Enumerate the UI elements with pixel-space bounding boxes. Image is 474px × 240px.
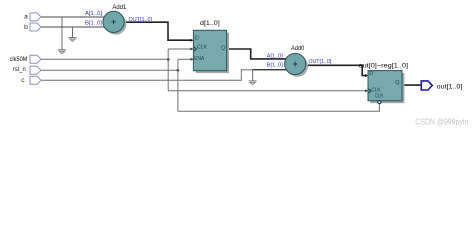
ground GND3 [249, 81, 257, 85]
svg-text:B[1..0]: B[1..0] [85, 21, 102, 27]
wire clk branch to d register CLK [168, 48, 193, 50]
svg-text:D: D [369, 71, 373, 77]
svg-text:clk50M: clk50M [10, 56, 28, 63]
wire rst bottom run to out~reg CLR [178, 104, 380, 112]
svg-text:b: b [24, 24, 28, 31]
svg-text:A[1..0]: A[1..0] [85, 11, 102, 17]
ground GND1 [58, 50, 66, 54]
adder Add0 circle [285, 53, 306, 74]
wire rst_n horizontal [41, 69, 178, 71]
input pin b [30, 23, 41, 31]
svg-text:Q: Q [395, 80, 400, 86]
node junction dot clk [167, 58, 170, 61]
register out[0]~reg[1..0] body [368, 71, 402, 101]
svg-text:A[1..0]: A[1..0] [267, 53, 283, 59]
adder Add0 shadow [287, 56, 308, 77]
adder Add0 plus sign [293, 62, 297, 66]
arrowhead d register CLK pin [190, 48, 193, 51]
adder Add1 circle [103, 11, 124, 32]
wire rst vertical trunk [177, 59, 179, 111]
svg-text:CLR: CLR [375, 93, 383, 99]
svg-text:OUT[1..0]: OUT[1..0] [129, 17, 153, 23]
svg-text:CLK: CLK [197, 44, 207, 50]
svg-text:Add0: Add0 [291, 45, 304, 52]
svg-text:Add1: Add1 [112, 4, 126, 11]
svg-text:out[1..0]: out[1..0] [437, 83, 463, 90]
ground stub from node b bus [72, 27, 74, 37]
svg-text:d[1..0]: d[1..0] [200, 20, 220, 27]
wire Add0 OUT to out~reg D input [301, 65, 367, 75]
ground stub from node c bus [252, 70, 254, 81]
svg-text:ENA: ENA [194, 56, 204, 62]
wire clk bottom run to out~reg CLK [168, 90, 367, 92]
wire clk vertical trunk [167, 49, 169, 91]
svg-text:OUT[1..0]: OUT[1..0] [308, 59, 331, 65]
wire c thin long [41, 70, 253, 81]
arrowhead out~reg D pin [365, 74, 368, 77]
svg-text:out[0]~reg[1..0]: out[0]~reg[1..0] [359, 63, 409, 70]
CLR bubble out~reg [378, 101, 381, 104]
wire clk50M horizontal [41, 58, 168, 60]
ground stub from node a bus [61, 17, 63, 50]
wire b to Add1 B [41, 26, 108, 28]
svg-text:rst_n: rst_n [13, 66, 26, 73]
adder Add1 plus sign [111, 20, 115, 24]
register out~reg shadow [370, 73, 404, 103]
node junction dot rst [177, 69, 180, 72]
register d shadow [196, 33, 229, 73]
wire out~reg Q to output pin [402, 84, 421, 86]
svg-text:CSDN @999pyln: CSDN @999pyln [415, 117, 468, 126]
clock caret d register [194, 47, 196, 51]
svg-text:Q: Q [221, 46, 226, 52]
register d[1..0] body [193, 30, 226, 70]
input pin a [30, 13, 41, 21]
wire a to Add1 A [41, 16, 108, 18]
output pin out [421, 81, 432, 90]
svg-text:D: D [195, 35, 199, 41]
wire rst branch to d register ENA [178, 58, 193, 60]
arrowhead d register ENA pin [190, 58, 193, 61]
input pin rst_n [30, 66, 41, 74]
clock caret out~reg [369, 89, 371, 93]
svg-text:a: a [24, 14, 28, 21]
wire Add1 OUT to d register D input [120, 22, 192, 40]
ground GND2 [69, 38, 77, 42]
input pin clk50M [30, 55, 41, 63]
svg-text:c: c [21, 77, 25, 84]
svg-text:B[1..0]: B[1..0] [267, 63, 283, 69]
input pin c [30, 76, 41, 84]
wire c bus segment to Add0 B [253, 69, 290, 71]
wire d register Q to Add0 A [227, 49, 290, 59]
arrowhead d register D pin [190, 39, 193, 42]
adder Add1 shadow [105, 14, 126, 35]
arrowhead out~reg CLK pin [365, 89, 368, 92]
